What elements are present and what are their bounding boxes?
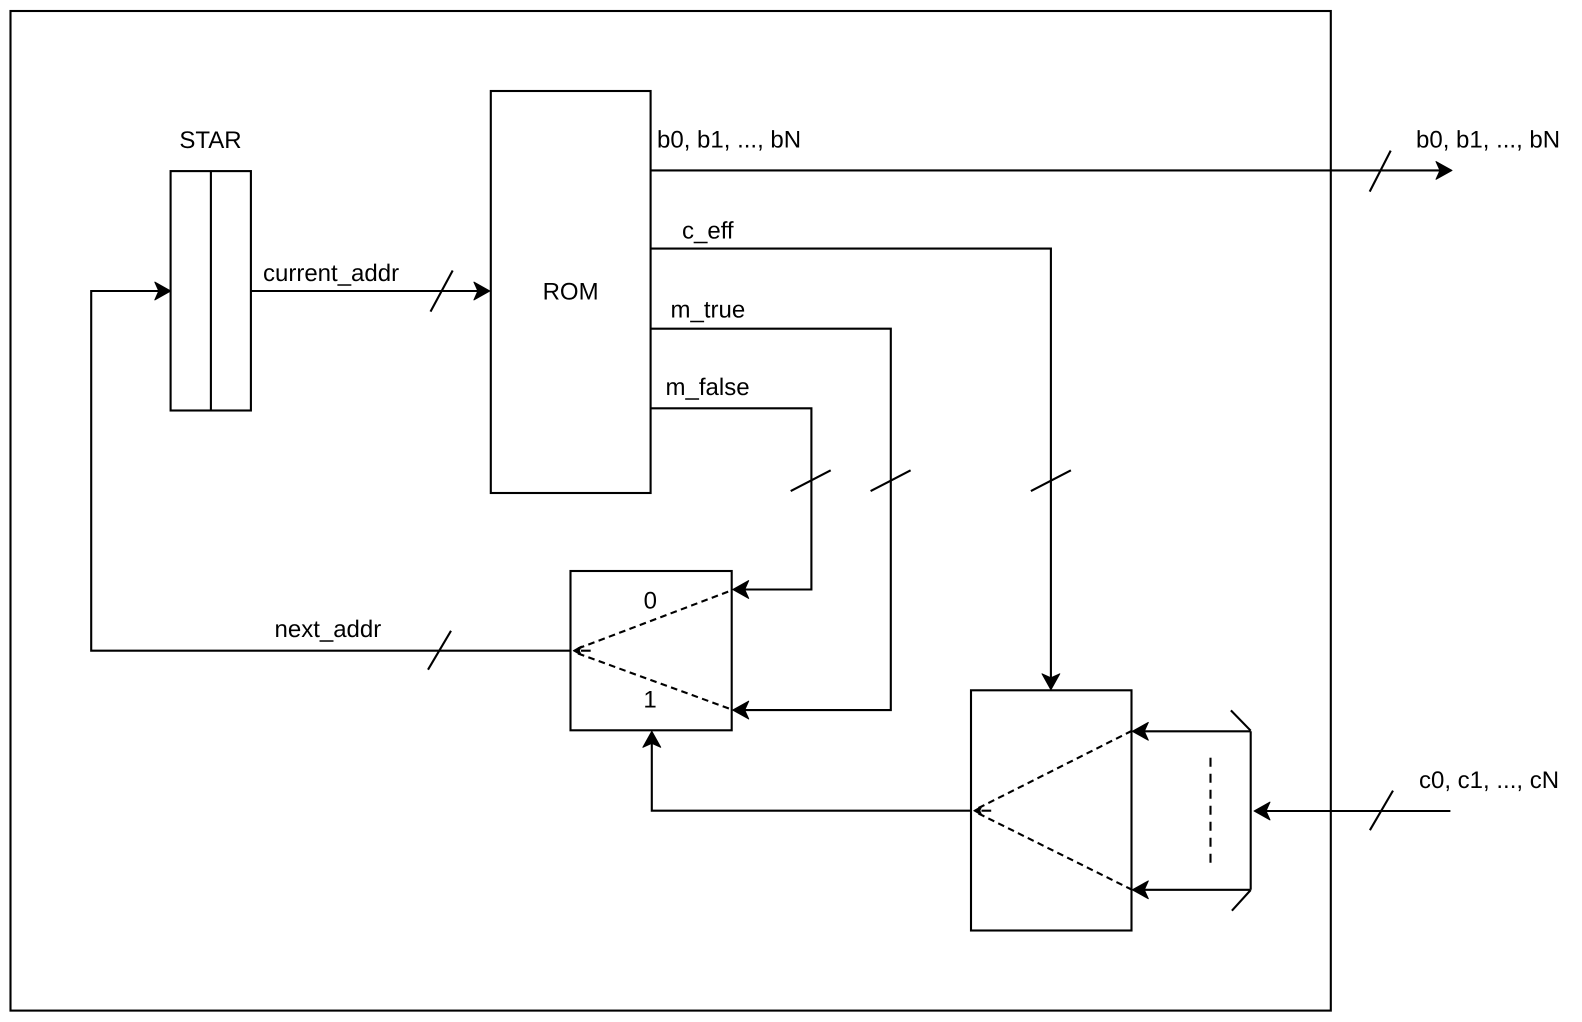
svg-text:next_addr: next_addr [275, 616, 382, 643]
mux M2 (condition select) [971, 690, 1132, 930]
svg-text:1: 1 [643, 687, 656, 714]
fan-out top tick [1231, 710, 1251, 730]
mux M2 dashed path to bottom input [979, 814, 1132, 890]
svg-text:m_true: m_true [671, 297, 746, 324]
wire mux M2 bottom input (from fan-out bar) [1144, 889, 1250, 891]
wire b0..bN output (ROM to right edge) [651, 169, 1440, 171]
arrowhead m_false into mux M1 [733, 581, 749, 599]
mux M1 (next address select) [571, 571, 732, 730]
wire c0..cN input [1266, 810, 1450, 812]
mux M1 output stub [581, 650, 591, 652]
bus slash current_addr [431, 271, 453, 312]
arrowhead select into mux M1 bottom [643, 731, 661, 747]
arrowhead b output [1436, 162, 1452, 180]
wire next_addr feedback (mux Y output to STAR input) [91, 291, 570, 651]
arrowhead c input into fan-out bar [1254, 802, 1270, 820]
arrowhead c_eff down into mux M2 [1042, 674, 1060, 690]
svg-text:current_addr: current_addr [263, 260, 399, 287]
arrowhead into mux M2 bottom input [1132, 881, 1148, 899]
arrowhead into ROM [474, 282, 490, 300]
wire mux M2 output to mux M1 select [652, 743, 971, 810]
svg-text:STAR: STAR [179, 127, 241, 154]
bus slash c_eff [1031, 470, 1071, 491]
arrowhead into STAR [155, 282, 171, 300]
arrowhead m_true into mux M1 [733, 701, 749, 719]
arrowhead into mux M2 top input [1132, 722, 1148, 740]
mux M2 dashed path to top input [979, 731, 1132, 808]
svg-text:ROM: ROM [543, 278, 599, 305]
mux M2 output stub [982, 810, 992, 812]
wire c_eff (ROM to mux M2 top) [651, 249, 1051, 678]
bus slash m_true [871, 470, 911, 491]
bus slash next_addr [428, 631, 451, 670]
wire current_addr (STAR to ROM) [251, 290, 478, 292]
wire mux M2 top input (from fan-out bar) [1144, 730, 1250, 732]
svg-text:c0, c1, ..., cN: c0, c1, ..., cN [1419, 767, 1559, 794]
fan-out ellipsis dashed [1209, 758, 1211, 869]
wire m_false (ROM to mux M1 input 0) [651, 408, 812, 589]
ROM U1 [491, 91, 651, 493]
mux M1 dashed path to input 1 [578, 654, 732, 710]
bus slash c input [1370, 791, 1393, 831]
fan-out bottom tick [1232, 890, 1251, 911]
mux M1 dashed path to input 0 [578, 590, 732, 648]
svg-text:0: 0 [644, 587, 657, 614]
svg-text:m_false: m_false [666, 374, 750, 401]
register STAR [171, 171, 251, 410]
svg-text:b0, b1, ..., bN: b0, b1, ..., bN [1416, 127, 1560, 154]
fan-out bar (c bus splitter) [1211, 710, 1251, 910]
bus slash b output [1370, 151, 1391, 192]
svg-text:b0, b1, ..., bN: b0, b1, ..., bN [657, 127, 801, 154]
wire m_true (ROM to mux M1 input 1) [651, 329, 891, 710]
svg-text:c_eff: c_eff [682, 218, 734, 245]
bus slash m_false [791, 470, 831, 491]
